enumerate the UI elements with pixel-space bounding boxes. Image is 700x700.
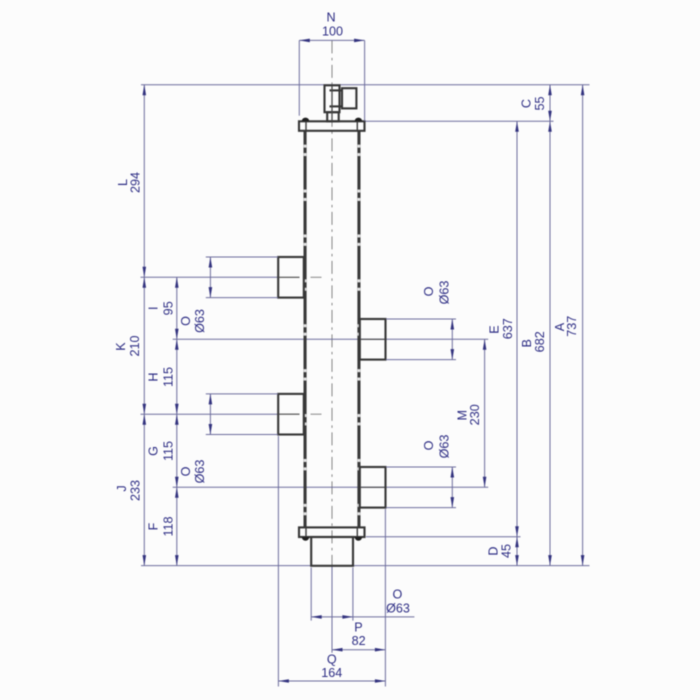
bottom extension line (pipe bottom, y=565.6) [141,565,590,567]
svg-text:O: O [179,466,193,476]
bottom outlet pipe [311,537,353,566]
svg-text:Q: Q [327,653,337,667]
extension line upper-right port center (crosses vessel) [173,338,489,340]
svg-text:O: O [422,286,436,296]
svg-text:Ø63: Ø63 [193,460,207,484]
dimension P 82 [332,620,385,651]
lower-right port [360,467,386,508]
extension line lower-left port center [141,413,279,415]
svg-text:E: E [488,325,502,333]
svg-text:L: L [116,179,130,186]
svg-text:P: P [354,620,362,634]
lower-left port [278,394,321,435]
dimension O Ø63 upper-left port [179,257,278,333]
svg-text:O: O [422,440,436,450]
svg-text:Ø63: Ø63 [193,309,207,333]
vertical centerline of vessel [331,40,333,566]
svg-text:737: 737 [565,316,579,337]
svg-text:D: D [487,546,501,555]
dimension chain I/H/G/F (x=176.8) [147,277,179,565]
svg-text:J: J [115,485,129,491]
svg-text:Ø63: Ø63 [386,601,410,615]
svg-text:230: 230 [468,404,482,425]
svg-text:O: O [179,316,193,326]
svg-text:G: G [147,446,161,456]
dimension M 230 (x=484.6) [455,339,486,487]
vessel left wall [304,131,307,528]
dimension O Ø63 lower-left port [179,394,278,484]
air vent valve body [325,85,357,121]
svg-text:55: 55 [533,96,547,110]
dimension O Ø63 lower-right port [386,435,456,508]
svg-text:N: N [326,11,335,25]
svg-text:100: 100 [322,25,343,39]
svg-text:I: I [147,307,161,311]
svg-text:Ø63: Ø63 [437,281,451,305]
svg-text:682: 682 [533,331,547,352]
vessel right wall [357,131,360,528]
svg-text:O: O [393,587,403,601]
dimension A 737 (x=582.6) [553,85,584,566]
svg-text:F: F [147,522,161,530]
dimension O Ø63 bottom pipe [311,568,414,621]
svg-text:45: 45 [500,544,514,558]
upper-right port [360,319,386,360]
svg-text:B: B [520,339,534,347]
svg-text:233: 233 [129,480,143,501]
dimension Q 164 [278,436,385,687]
extension line upper-left port center [141,276,279,278]
extension line lower-right port center (crosses vessel) [173,486,489,488]
dimension chain L/K/J (x=144.3) [114,85,146,566]
svg-text:115: 115 [162,367,176,387]
svg-text:Ø63: Ø63 [437,435,451,459]
svg-text:118: 118 [162,516,176,536]
svg-text:294: 294 [129,172,143,193]
top flange [299,121,365,131]
bottom flange [299,527,365,537]
svg-text:82: 82 [352,634,366,648]
svg-text:637: 637 [501,318,515,339]
extension line flange top right (y=121.3) [365,120,554,122]
upper-left port [278,257,321,298]
svg-text:164: 164 [321,666,342,680]
dimension E 637 / D 45 (x=517) [487,121,519,565]
wall weld dashes [304,145,361,516]
dimension C 55 / B 682 (x=550) [520,85,552,566]
dimension O Ø63 upper-right port [386,281,456,360]
extension line bottom flange bottom right (y=536.7) [366,536,521,538]
svg-text:95: 95 [162,301,176,315]
dimension N 100 (top) [299,11,364,122]
svg-text:210: 210 [128,335,142,356]
top flange bolts [302,118,362,122]
top extension line (valve top, y=84.8) [141,84,590,86]
svg-text:C: C [520,99,534,108]
svg-text:115: 115 [162,441,176,461]
svg-text:H: H [147,372,161,381]
svg-text:K: K [114,342,128,351]
bottom flange bolts [302,537,362,541]
